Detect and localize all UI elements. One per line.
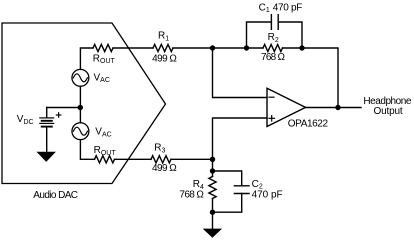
svg-text:Audio DAC: Audio DAC — [33, 190, 78, 201]
svg-text:768 Ω: 768 Ω — [261, 52, 286, 63]
svg-text:499 Ω: 499 Ω — [152, 54, 177, 65]
svg-text:470 pF: 470 pF — [252, 190, 283, 201]
svg-text:470 pF: 470 pF — [273, 2, 303, 13]
svg-text:OPA1622: OPA1622 — [288, 118, 329, 129]
svg-text:499 Ω: 499 Ω — [152, 163, 177, 174]
svg-text:768 Ω: 768 Ω — [179, 190, 204, 201]
svg-text:Output: Output — [374, 106, 403, 117]
